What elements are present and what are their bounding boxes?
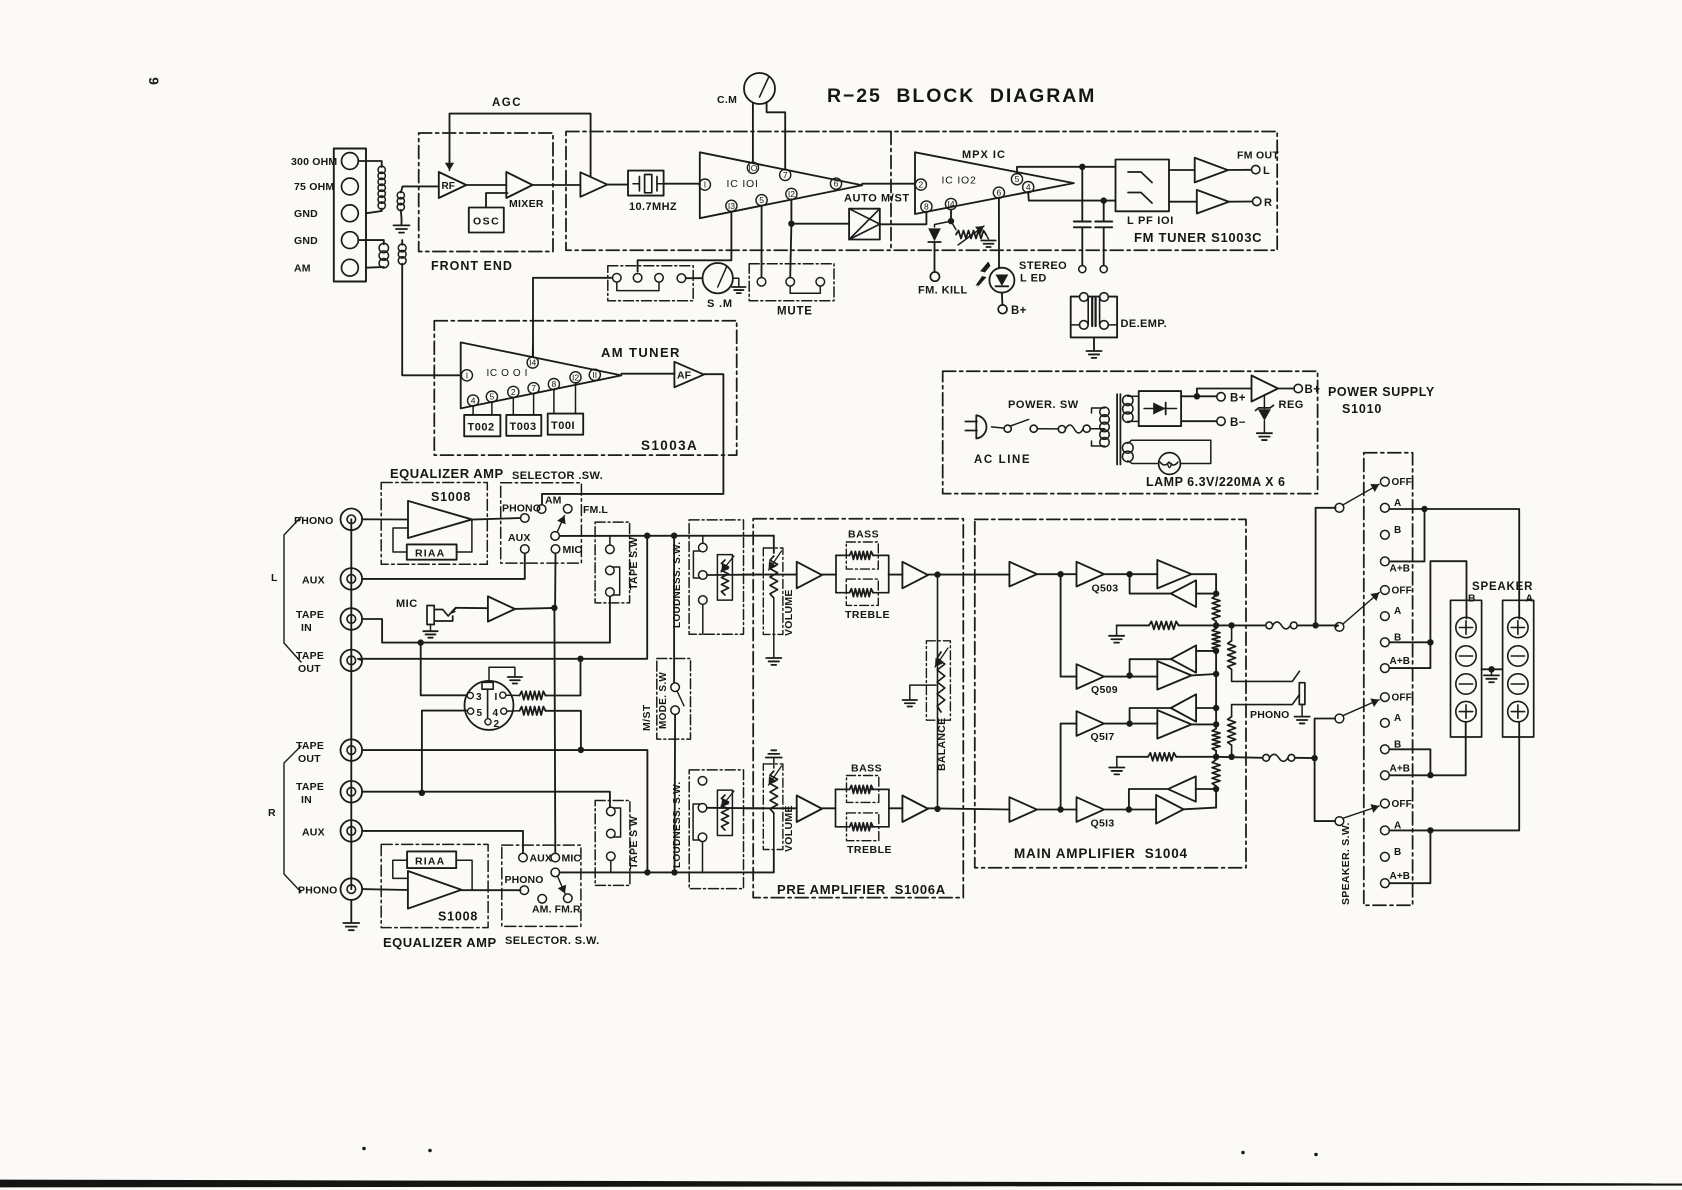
PHONO R jack xyxy=(341,878,363,900)
svg-text:A+B: A+B xyxy=(1390,763,1411,774)
wire rectifier B- xyxy=(1181,420,1217,422)
MAIN AMPLIFIER S1004 dashed box xyxy=(975,519,1246,867)
wire pin 12 to AUTO M/ST xyxy=(791,200,849,224)
mode switch lever xyxy=(677,691,684,706)
svg-text:5: 5 xyxy=(490,392,495,402)
wire IC101 pin 5 to MUTE xyxy=(761,206,763,278)
IF amplifier xyxy=(580,172,607,197)
wire resistor to tape out R line xyxy=(546,711,581,750)
wire column to Q509 pair xyxy=(1215,650,1217,705)
selector L PHONO contact xyxy=(521,514,530,523)
wire preamp L out xyxy=(928,574,1009,576)
MUTE contacts xyxy=(757,278,766,287)
wire IC101 to IC102 xyxy=(862,183,915,185)
svg-text:MPX IC: MPX IC xyxy=(962,149,1006,161)
tape switch R bracket xyxy=(613,808,620,837)
wire R output to speaker switch group4 pivot xyxy=(1315,758,1335,821)
wire PHONO R jack to EQ amp R xyxy=(362,888,408,891)
svg-text:DE.EMP.: DE.EMP. xyxy=(1121,318,1168,330)
headphone jack tip xyxy=(1299,683,1305,705)
resistor DIN pin1 xyxy=(506,694,520,696)
tape switch L bracket xyxy=(613,567,620,595)
svg-text:4: 4 xyxy=(1026,182,1031,192)
emitter resistor R1 xyxy=(1215,705,1217,729)
svg-text:10.7MHZ: 10.7MHZ xyxy=(629,201,677,213)
junction dot TAPE IN L to DIN xyxy=(418,639,424,645)
svg-text:S1008: S1008 xyxy=(431,490,471,504)
svg-text:IC IO2: IC IO2 xyxy=(942,175,977,187)
wire TAPE IN L jack to tape switch xyxy=(362,597,610,643)
svg-text:SELECTOR. S.W.: SELECTOR. S.W. xyxy=(505,935,600,947)
junction dot tape out R branch xyxy=(578,747,584,753)
speaker switch group 1 lever xyxy=(1343,484,1379,505)
wire pin 14 up to S.M xyxy=(532,344,534,357)
svg-text:TAPE: TAPE xyxy=(296,781,324,793)
speaker switch group 4 pivot xyxy=(1335,817,1344,826)
AGC arrowhead into RF amp xyxy=(449,160,451,171)
IC101 pin 12 xyxy=(786,188,797,199)
svg-text:4: 4 xyxy=(493,708,499,719)
svg-text:AM. FM.R: AM. FM.R xyxy=(532,904,581,916)
wire EQ amp R to selector R PHONO xyxy=(461,889,520,891)
wire group3 B xyxy=(1389,749,1430,775)
scan speck 4 xyxy=(1314,1153,1318,1157)
TREBLE L resistor xyxy=(850,589,874,597)
wire group1 A to speaker A plus xyxy=(1389,509,1519,619)
S.M switch dashed box xyxy=(608,266,693,301)
FM OUT R amplifier xyxy=(1197,190,1229,214)
AUX L jack xyxy=(341,568,363,590)
DIN connector circle xyxy=(465,681,514,730)
tape switch R dashed box xyxy=(595,801,630,886)
speaker switch group 3 OFF contact xyxy=(1381,693,1390,702)
emitter resistor R2 xyxy=(1212,760,1220,786)
svg-text:L: L xyxy=(271,572,278,584)
svg-text:B+: B+ xyxy=(1011,305,1027,317)
svg-text:A: A xyxy=(1526,593,1534,605)
wire L output to speaker switch group1 xyxy=(1316,508,1336,626)
wire amp to bass network L xyxy=(822,574,836,576)
selector L lever xyxy=(557,516,564,533)
AC plug xyxy=(976,415,986,438)
svg-text:OUT: OUT xyxy=(298,753,321,765)
main amp input amp R xyxy=(1009,797,1037,822)
wire L output to speaker switch group2 pivot xyxy=(1336,625,1338,627)
preamp R amp 1 xyxy=(797,796,822,823)
ground below PHONO R jack xyxy=(350,900,352,923)
speaker switch group 3 pivot xyxy=(1335,714,1344,723)
L channel bracket xyxy=(284,517,301,662)
speaker switch group 4 lever xyxy=(1343,806,1379,818)
svg-text:STEREO: STEREO xyxy=(1019,260,1067,272)
wire RF to mixer xyxy=(466,184,506,186)
svg-text:BALANCE: BALANCE xyxy=(936,718,948,771)
MUTE contact bracket xyxy=(790,286,820,293)
VOLUME L pot dashed box xyxy=(763,548,783,634)
IC001 pin 12 xyxy=(570,372,581,383)
svg-text:I4: I4 xyxy=(947,199,954,209)
wire fuse to transformer primary xyxy=(1090,428,1104,430)
headphone tap resistor R xyxy=(1228,754,1234,760)
svg-text:T003: T003 xyxy=(510,421,537,433)
svg-text:3: 3 xyxy=(476,692,482,703)
ground for variable resistor xyxy=(986,235,989,240)
junction dot DIN pin5 to tape in R xyxy=(419,790,425,796)
loudness L bracket xyxy=(693,551,700,578)
selector R MIC contact xyxy=(551,853,560,862)
pilot lamp xyxy=(1159,453,1181,475)
svg-text:Q5I3: Q5I3 xyxy=(1091,818,1115,830)
volume R wire through xyxy=(744,807,797,809)
svg-text:GND: GND xyxy=(294,235,318,247)
wire column to Q513 pair xyxy=(1215,786,1217,808)
svg-text:6: 6 xyxy=(997,188,1002,198)
svg-text:MIC: MIC xyxy=(562,853,582,865)
svg-text:AM: AM xyxy=(545,495,562,507)
IC001 pin 5 xyxy=(486,391,497,402)
wire plug to switch xyxy=(992,427,1004,428)
wire MIC node down to R selector MIC xyxy=(553,608,556,853)
MUTE dashed box xyxy=(749,264,834,301)
bass-treble R network bracket xyxy=(835,789,837,826)
EQ amp R triangle xyxy=(408,871,462,909)
svg-text:MODE. S.W: MODE. S.W xyxy=(658,672,669,729)
svg-text:B: B xyxy=(1394,847,1401,858)
selector R PHONO contact xyxy=(520,886,529,895)
zener diode of REG xyxy=(1263,395,1265,409)
wire to REG amp xyxy=(1197,389,1252,397)
output pair L-top NPN xyxy=(1157,560,1191,588)
svg-text:A: A xyxy=(1394,498,1401,509)
svg-text:A+B: A+B xyxy=(1390,656,1411,667)
svg-text:GND: GND xyxy=(294,208,318,220)
IC102 MPX IC triangle xyxy=(915,152,1074,214)
speaker switch group 2 pivot xyxy=(1335,623,1344,632)
svg-text:OFF: OFF xyxy=(1392,693,1412,704)
wire C.M meter to pin 10 xyxy=(752,104,754,163)
svg-text:R−25 BLOCK DIAGRAM: R−25 BLOCK DIAGRAM xyxy=(827,85,1096,107)
svg-text:TREBLE: TREBLE xyxy=(847,844,892,856)
svg-text:FM.L: FM.L xyxy=(583,504,608,516)
AF amplifier xyxy=(674,362,704,388)
svg-text:IN: IN xyxy=(301,622,312,634)
speaker B minus terminal 1 xyxy=(1456,646,1476,666)
junction dot tape out L branch xyxy=(577,656,583,662)
svg-text:EQUALIZER AMP: EQUALIZER AMP xyxy=(390,466,504,481)
T003 transformer box xyxy=(512,398,514,415)
EQUALIZER AMP L dashed box xyxy=(381,483,487,565)
svg-text:FM. KILL: FM. KILL xyxy=(918,285,968,297)
svg-text:RIAA: RIAA xyxy=(415,856,445,868)
capacitor C1 on L output xyxy=(1081,167,1083,221)
DIN pin 5 xyxy=(468,708,474,714)
svg-text:TREBLE: TREBLE xyxy=(845,609,890,621)
svg-text:PHONO: PHONO xyxy=(505,874,544,886)
wire TAPE IN R jack to tape switch R xyxy=(362,792,610,807)
svg-text:FRONT END: FRONT END xyxy=(431,259,513,273)
R channel signal rail xyxy=(560,871,703,873)
power fuse xyxy=(1058,426,1065,433)
svg-text:B+: B+ xyxy=(1305,384,1321,396)
svg-text:R: R xyxy=(268,807,276,819)
speaker B terminal strip xyxy=(1451,600,1482,737)
power transformer primary xyxy=(1092,408,1105,413)
power switch contact 2 xyxy=(1030,425,1037,432)
svg-text:L PF IOI: L PF IOI xyxy=(1127,215,1174,227)
AUTO M/ST block xyxy=(849,209,880,240)
svg-text:AUTO M/ST: AUTO M/ST xyxy=(844,193,910,205)
wire Q509 output xyxy=(1104,676,1157,678)
svg-text:L: L xyxy=(1263,165,1270,177)
headphone tap resistor L xyxy=(1228,622,1234,628)
junction dot R speaker node xyxy=(1215,751,1217,758)
wire OSC to mixer xyxy=(486,193,508,208)
svg-text:S1010: S1010 xyxy=(1342,402,1382,416)
wire C.M meter to pin 7 xyxy=(767,102,786,169)
wires Q517 pair to column xyxy=(1196,707,1216,709)
speaker A minus terminal 1 xyxy=(1508,646,1528,666)
wire AM secondary down to IC001 pin 1 xyxy=(402,264,461,376)
volume R pot xyxy=(770,771,778,813)
lamp loop xyxy=(1128,440,1211,463)
svg-text:7: 7 xyxy=(783,170,788,180)
IC101 pin 1 xyxy=(699,179,710,190)
REG amplifier xyxy=(1252,376,1279,402)
wire S.M contact 4 to meter xyxy=(686,277,703,279)
speaker common ground link xyxy=(1482,668,1503,670)
svg-text:TAPE: TAPE xyxy=(296,609,324,621)
svg-text:B: B xyxy=(1394,525,1401,536)
speaker switch group 3 lever xyxy=(1343,700,1379,716)
svg-text:OUT: OUT xyxy=(298,663,321,675)
svg-text:LOUDNESS. S.W.: LOUDNESS. S.W. xyxy=(672,542,683,628)
balance pot connecting wire xyxy=(937,575,939,809)
wire IF amp to ceramic filter xyxy=(607,184,628,186)
IC001 pin 7 xyxy=(528,383,539,394)
BASS L dashed box xyxy=(846,542,878,569)
selector R AUX contact xyxy=(519,853,528,862)
svg-text:PHONO: PHONO xyxy=(502,503,541,515)
svg-text:S1003A: S1003A xyxy=(641,438,698,453)
wires Q509 pair to column xyxy=(1196,650,1216,652)
wire LPF to L amp xyxy=(1169,169,1195,171)
speaker switch group 1 OFF contact xyxy=(1381,477,1390,486)
svg-text:5: 5 xyxy=(759,195,764,205)
mode switch wire through xyxy=(673,536,675,683)
mixer amp xyxy=(506,172,532,198)
speaker B plus terminal 2 xyxy=(1456,701,1476,721)
lightning arrow at LED xyxy=(975,262,990,289)
wire DIN pin 3 to tape in L xyxy=(421,643,467,696)
SELECTOR SW R dashed box xyxy=(502,845,581,926)
svg-text:LAMP 6.3V/220MA X 6: LAMP 6.3V/220MA X 6 xyxy=(1146,475,1285,489)
antenna terminal strip xyxy=(334,149,366,282)
svg-text:EQUALIZER AMP: EQUALIZER AMP xyxy=(383,935,497,950)
speaker switch group 2 A+B contact xyxy=(1381,664,1390,673)
svg-text:6: 6 xyxy=(834,179,839,189)
speaker switch group 1 B contact xyxy=(1381,530,1390,539)
headphone PHONO jack contact L xyxy=(1278,671,1299,681)
svg-text:I2: I2 xyxy=(572,372,579,382)
selector L AM contact xyxy=(537,505,546,514)
T001 transformer box xyxy=(553,390,555,414)
wire filter to IC101 pin 1 xyxy=(664,183,700,185)
IC101 pin 6 xyxy=(830,178,841,189)
scan speck 1 xyxy=(362,1147,366,1151)
svg-text:FM OUT: FM OUT xyxy=(1237,150,1279,162)
ground for MIC jack xyxy=(430,625,432,631)
balance pot resistor xyxy=(937,652,945,712)
svg-text:2: 2 xyxy=(511,387,516,397)
scan speck 2 xyxy=(428,1149,432,1153)
ground for zener xyxy=(1257,433,1272,440)
terminal 75 OHM xyxy=(342,178,359,195)
junction dot rail R mode xyxy=(671,869,677,875)
FM OUT L terminal xyxy=(1228,169,1252,171)
wire TAPE OUT L jack to monitor node xyxy=(358,536,647,661)
wire loudness L to volume xyxy=(707,574,763,576)
RIAA R box xyxy=(407,851,456,868)
FM antenna transformer primary coil xyxy=(358,161,381,167)
junction dot L fuse node xyxy=(1312,622,1318,628)
svg-text:MIC: MIC xyxy=(563,544,583,556)
output pair Q517 lower NPN xyxy=(1157,710,1191,739)
svg-text:MIC: MIC xyxy=(396,598,418,610)
terminal GND 1 xyxy=(342,205,359,222)
output pair Q509 lower NPN xyxy=(1157,661,1191,690)
S.M meter xyxy=(703,263,733,293)
svg-text:R: R xyxy=(1264,197,1272,209)
svg-text:SELECTOR .SW.: SELECTOR .SW. xyxy=(512,470,603,482)
svg-text:AM TUNER: AM TUNER xyxy=(601,345,681,360)
wire Q513 output xyxy=(1104,809,1156,811)
svg-text:AUX: AUX xyxy=(508,532,530,544)
S.M contact bracket xyxy=(617,282,659,290)
diode to FM KILL xyxy=(935,221,952,227)
headphone PHONO jack contact R xyxy=(1278,694,1299,704)
svg-text:AUX: AUX xyxy=(302,575,325,587)
svg-text:S .M: S .M xyxy=(707,298,733,310)
svg-text:M/ST: M/ST xyxy=(641,704,653,731)
svg-text:8: 8 xyxy=(924,202,929,212)
VOLUME R pot dashed box xyxy=(763,764,783,850)
speaker B plus terminal 1 xyxy=(1456,617,1476,637)
transistor Q513 amp xyxy=(1077,797,1105,822)
svg-text:SPEAKER: SPEAKER xyxy=(1472,581,1533,593)
power transformer secondary 1 xyxy=(1123,395,1133,405)
loudness L pot xyxy=(717,555,732,601)
emitter resistor L1 xyxy=(1212,596,1220,622)
LPF101 low pass filter box xyxy=(1116,160,1170,212)
junction dot rail L mode xyxy=(671,533,677,539)
wire AM tuner pin14 to S.M contact 1 xyxy=(533,278,612,357)
IC102 pin 6 xyxy=(993,187,1004,198)
TAPE OUT R jack xyxy=(341,739,363,761)
LOUDNESS SW R dashed box xyxy=(689,770,743,889)
10.7MHZ ceramic filter xyxy=(628,171,664,196)
TAPE IN L jack xyxy=(341,608,363,630)
svg-text:I4: I4 xyxy=(529,358,536,368)
terminal AM xyxy=(342,259,359,276)
speaker A plus terminal 2 xyxy=(1508,701,1528,721)
FM OUT L amplifier xyxy=(1195,158,1228,183)
AM antenna transformer primary coil xyxy=(358,240,384,244)
speaker switch group 4 A contact xyxy=(1381,826,1390,835)
svg-text:BASS: BASS xyxy=(848,529,879,541)
balance ground tap xyxy=(910,685,936,699)
IC102 pin 4 xyxy=(1023,182,1034,193)
STEREO LED xyxy=(989,268,1014,293)
wire IC001 to AF amp xyxy=(621,373,674,375)
svg-text:9: 9 xyxy=(146,77,162,85)
svg-text:II: II xyxy=(592,370,597,380)
svg-text:AM: AM xyxy=(294,263,311,275)
junction dot balance bottom xyxy=(934,806,940,812)
wire LPF to R amp xyxy=(1169,201,1197,203)
M/ST MODE SW dashed box xyxy=(657,659,691,740)
R channel bracket xyxy=(284,746,301,892)
junction dot driver split L xyxy=(1057,571,1063,577)
svg-text:PRE AMPLIFIER S1006A: PRE AMPLIFIER S1006A xyxy=(777,882,946,897)
TAPE SW L dashed box xyxy=(595,522,630,603)
svg-text:I2: I2 xyxy=(788,189,795,199)
wire Q517 input from split R xyxy=(1061,724,1077,810)
IC001 pin 1 xyxy=(461,370,472,381)
svg-text:POWER. SW: POWER. SW xyxy=(1008,399,1079,411)
wire mixer to IF amp xyxy=(533,184,581,186)
selector L FM.L contact xyxy=(563,505,572,514)
ground feedback L xyxy=(1116,625,1118,635)
REG output B+ terminal xyxy=(1278,388,1294,390)
junction dot L speaker node xyxy=(1215,621,1217,628)
wire rectifier B+ xyxy=(1181,395,1217,397)
wire pair out to column xyxy=(1192,574,1217,595)
svg-text:Q5I7: Q5I7 xyxy=(1091,731,1115,743)
wire DIN pin 5 to tape in R xyxy=(422,711,467,793)
PRE AMPLIFIER S1006A dashed box xyxy=(753,519,963,898)
IC101 pin 10 xyxy=(747,162,758,173)
IC101 pin 7 xyxy=(780,169,791,180)
svg-text:AUX: AUX xyxy=(302,827,325,839)
ground for FM secondary xyxy=(401,218,403,225)
svg-text:2: 2 xyxy=(494,719,500,730)
capacitor C2 on R output xyxy=(1103,201,1105,221)
svg-text:MIXER: MIXER xyxy=(509,198,544,210)
svg-text:AF: AF xyxy=(677,370,692,382)
B+ terminal under LED xyxy=(998,305,1007,314)
svg-text:B+: B+ xyxy=(1230,393,1246,405)
wire Q517 output xyxy=(1104,723,1157,725)
IC001 triangle xyxy=(461,342,622,408)
main amp input amp L xyxy=(1009,562,1037,587)
IC001 pin 14 xyxy=(527,357,538,368)
svg-text:AGC: AGC xyxy=(492,97,522,109)
AUX R jack xyxy=(341,820,363,842)
FM antenna transformer secondary coil xyxy=(401,186,403,192)
svg-text:A+B: A+B xyxy=(1390,563,1411,574)
loudness L contacts xyxy=(699,543,708,552)
wire MIC jack to MIC amp xyxy=(456,607,488,609)
RIAA R feedback wires xyxy=(393,860,408,878)
IC102 pin 8 xyxy=(921,201,932,212)
speaker switch group 1 A+B contact xyxy=(1381,557,1390,566)
speaker switch group 2 OFF contact xyxy=(1381,586,1390,595)
speaker B minus terminal 2 xyxy=(1456,674,1476,694)
svg-text:A+B: A+B xyxy=(1390,871,1411,882)
svg-text:I: I xyxy=(495,692,498,703)
PHONO L jack xyxy=(341,509,363,531)
terminal 300 OHM xyxy=(342,153,359,170)
